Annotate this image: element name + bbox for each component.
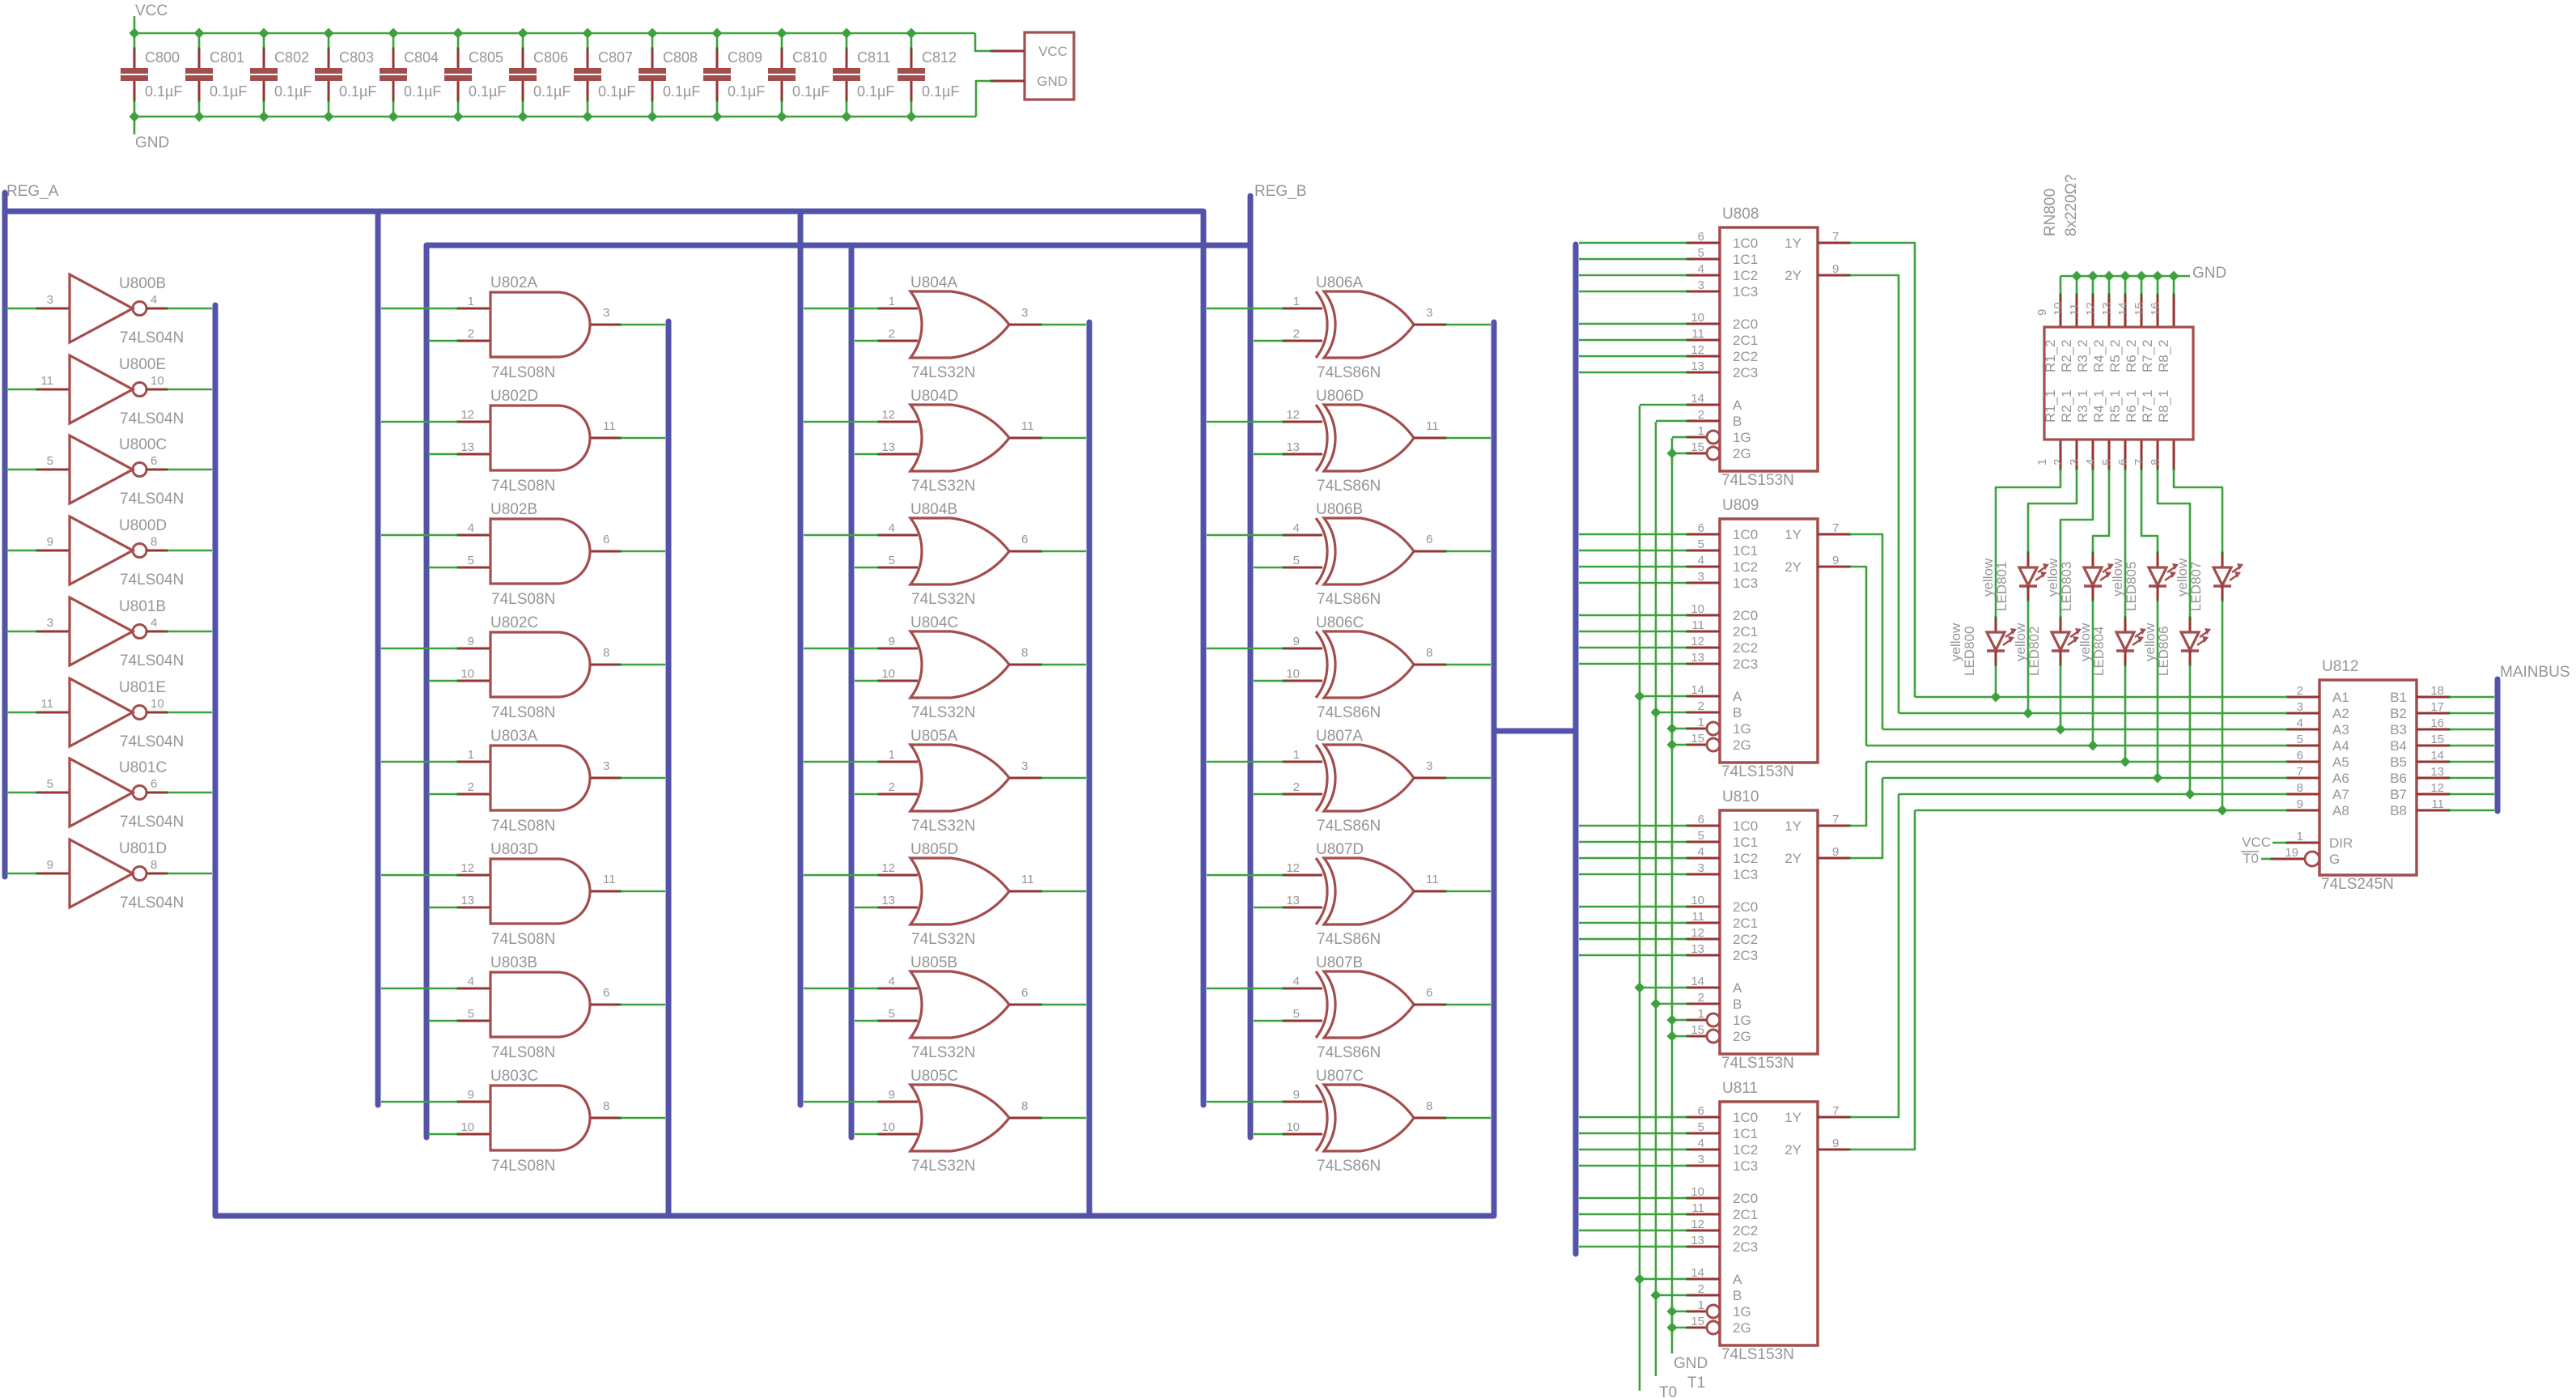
svg-text:R4_2: R4_2	[2091, 339, 2107, 372]
svg-text:11: 11	[1691, 327, 1704, 341]
svg-text:6: 6	[151, 777, 157, 791]
svg-text:U803D: U803D	[490, 841, 538, 858]
svg-text:2C2: 2C2	[1733, 640, 1758, 656]
svg-text:2: 2	[1698, 991, 1704, 1005]
svg-text:1: 1	[2035, 459, 2049, 465]
svg-text:U804D: U804D	[910, 388, 958, 405]
svg-text:15: 15	[1691, 1023, 1704, 1037]
svg-text:14: 14	[1691, 683, 1704, 697]
svg-text:U808: U808	[1722, 206, 1759, 223]
svg-text:U800E: U800E	[119, 356, 166, 373]
svg-text:8: 8	[151, 535, 157, 549]
svg-text:3: 3	[1698, 861, 1704, 875]
svg-text:R5_1: R5_1	[2107, 389, 2123, 423]
svg-text:6: 6	[1698, 521, 1704, 535]
svg-text:A1: A1	[2332, 690, 2349, 705]
svg-text:B: B	[1733, 1288, 1742, 1303]
svg-text:B2: B2	[2390, 706, 2407, 721]
svg-text:5: 5	[1698, 538, 1704, 551]
svg-text:U800B: U800B	[119, 275, 166, 292]
svg-text:VCC: VCC	[1038, 44, 1067, 59]
svg-text:10: 10	[1691, 602, 1704, 616]
svg-text:0.1µF: 0.1µF	[469, 83, 506, 100]
svg-text:0.1µF: 0.1µF	[857, 83, 894, 100]
svg-text:11: 11	[2431, 797, 2444, 811]
svg-text:REG_A: REG_A	[6, 183, 59, 200]
svg-text:2Y: 2Y	[1785, 851, 1802, 866]
svg-text:11: 11	[2068, 303, 2082, 316]
svg-text:2Y: 2Y	[1785, 559, 1802, 575]
svg-text:74LS86N: 74LS86N	[1317, 1044, 1381, 1061]
svg-text:B: B	[1733, 414, 1742, 429]
svg-text:74LS153N: 74LS153N	[1721, 1346, 1794, 1363]
svg-text:U800D: U800D	[119, 517, 167, 534]
svg-text:R5_2: R5_2	[2107, 339, 2123, 372]
svg-text:1: 1	[1293, 295, 1300, 308]
svg-text:10: 10	[151, 374, 164, 388]
svg-text:R7_1: R7_1	[2140, 389, 2155, 423]
svg-text:A2: A2	[2332, 706, 2349, 721]
svg-text:R4_1: R4_1	[2091, 389, 2107, 423]
svg-text:3: 3	[1021, 306, 1028, 320]
svg-text:2C0: 2C0	[1733, 1191, 1758, 1206]
svg-text:2C0: 2C0	[1733, 317, 1758, 332]
svg-text:1: 1	[889, 295, 895, 308]
svg-text:U806B: U806B	[1316, 501, 1363, 518]
svg-text:R2_2: R2_2	[2059, 339, 2074, 372]
svg-text:1C0: 1C0	[1733, 1110, 1758, 1125]
svg-text:0.1µF: 0.1µF	[339, 83, 376, 100]
svg-text:1C2: 1C2	[1733, 1142, 1758, 1158]
svg-text:1C3: 1C3	[1733, 284, 1758, 300]
svg-text:T0: T0	[2243, 851, 2259, 866]
svg-text:74LS153N: 74LS153N	[1721, 472, 1794, 489]
svg-text:U810: U810	[1722, 788, 1759, 805]
svg-text:U800C: U800C	[119, 436, 167, 453]
svg-text:1Y: 1Y	[1785, 818, 1802, 834]
svg-text:8: 8	[2149, 459, 2162, 465]
svg-text:3: 3	[47, 616, 53, 630]
svg-text:13: 13	[460, 894, 474, 907]
svg-text:4: 4	[1698, 554, 1704, 567]
svg-text:11: 11	[603, 873, 616, 886]
svg-text:U807D: U807D	[1316, 841, 1364, 858]
svg-text:6: 6	[1021, 986, 1028, 1000]
svg-text:8: 8	[603, 1099, 609, 1113]
svg-text:B: B	[1733, 705, 1742, 720]
svg-text:U806A: U806A	[1316, 274, 1363, 291]
svg-text:U804B: U804B	[910, 501, 957, 518]
svg-text:2: 2	[1293, 780, 1300, 794]
svg-text:RN800: RN800	[2042, 189, 2059, 236]
svg-text:5: 5	[889, 1007, 895, 1021]
svg-text:4: 4	[1698, 845, 1704, 859]
svg-text:2C0: 2C0	[1733, 608, 1758, 623]
svg-text:13: 13	[2430, 765, 2444, 779]
svg-text:5: 5	[1293, 554, 1300, 567]
svg-text:1: 1	[1698, 1007, 1704, 1021]
svg-text:74LS04N: 74LS04N	[120, 572, 184, 589]
svg-text:1Y: 1Y	[1785, 527, 1802, 542]
svg-text:1: 1	[1293, 748, 1300, 762]
svg-text:R7_2: R7_2	[2140, 339, 2155, 372]
svg-text:5: 5	[1293, 1007, 1300, 1021]
svg-text:0.1µF: 0.1µF	[792, 83, 830, 100]
svg-text:G: G	[2329, 852, 2340, 867]
svg-text:0.1µF: 0.1µF	[728, 83, 765, 100]
svg-text:4: 4	[889, 521, 895, 535]
svg-text:13: 13	[881, 440, 895, 454]
svg-text:A: A	[1733, 1272, 1742, 1287]
svg-text:13: 13	[2100, 302, 2114, 316]
svg-text:1C1: 1C1	[1733, 1126, 1758, 1141]
svg-text:74LS32N: 74LS32N	[911, 591, 975, 608]
svg-text:5: 5	[2297, 733, 2303, 746]
svg-text:R6_2: R6_2	[2124, 339, 2139, 372]
svg-text:9: 9	[889, 1088, 895, 1102]
svg-text:R8_1: R8_1	[2156, 389, 2171, 423]
svg-text:2: 2	[1293, 327, 1300, 341]
svg-text:1Y: 1Y	[1785, 236, 1802, 251]
svg-text:10: 10	[1691, 894, 1704, 907]
svg-text:4: 4	[1698, 1137, 1704, 1150]
svg-text:MAINBUS: MAINBUS	[2500, 664, 2570, 681]
svg-text:74LS86N: 74LS86N	[1317, 478, 1381, 495]
svg-text:A: A	[1733, 397, 1742, 413]
svg-text:74LS245N: 74LS245N	[2321, 876, 2394, 893]
svg-text:1C0: 1C0	[1733, 527, 1758, 542]
svg-text:U801B: U801B	[119, 598, 166, 615]
svg-text:5: 5	[468, 554, 474, 567]
svg-text:14: 14	[1691, 975, 1704, 988]
svg-text:1: 1	[1698, 424, 1704, 438]
svg-text:C809: C809	[728, 49, 762, 66]
svg-text:74LS04N: 74LS04N	[120, 894, 184, 911]
svg-text:REG_B: REG_B	[1254, 183, 1306, 200]
svg-text:74LS08N: 74LS08N	[491, 1044, 555, 1061]
svg-text:A8: A8	[2332, 803, 2349, 818]
svg-text:5: 5	[1698, 1120, 1704, 1134]
svg-text:3: 3	[603, 306, 609, 320]
svg-text:6: 6	[1698, 1104, 1704, 1118]
svg-text:74LS86N: 74LS86N	[1317, 818, 1381, 835]
svg-text:5: 5	[47, 454, 53, 468]
svg-text:R3_2: R3_2	[2075, 339, 2090, 372]
svg-text:9: 9	[1832, 554, 1839, 567]
svg-text:2G: 2G	[1733, 446, 1751, 461]
svg-text:74LS08N: 74LS08N	[491, 1158, 555, 1175]
svg-text:15: 15	[2133, 302, 2146, 316]
svg-text:8: 8	[2297, 781, 2303, 795]
svg-text:4: 4	[2084, 459, 2098, 465]
svg-text:U804C: U804C	[910, 614, 958, 631]
svg-text:12: 12	[460, 861, 474, 875]
svg-text:2: 2	[889, 327, 895, 341]
svg-text:0.1µF: 0.1µF	[210, 83, 247, 100]
svg-text:B8: B8	[2390, 803, 2407, 818]
svg-text:13: 13	[1691, 359, 1704, 373]
svg-text:0.1µF: 0.1µF	[922, 83, 959, 100]
svg-text:2: 2	[2297, 684, 2303, 698]
svg-text:7: 7	[1832, 230, 1839, 244]
svg-text:LED800: LED800	[1962, 627, 1977, 676]
svg-text:1G: 1G	[1733, 430, 1751, 445]
svg-text:U812: U812	[2322, 658, 2358, 675]
svg-text:6: 6	[1698, 813, 1704, 826]
svg-text:12: 12	[1691, 926, 1704, 940]
svg-text:74LS32N: 74LS32N	[911, 931, 975, 948]
svg-text:B3: B3	[2390, 722, 2407, 737]
svg-text:74LS86N: 74LS86N	[1317, 364, 1381, 381]
svg-text:6: 6	[151, 454, 157, 468]
svg-text:2C1: 2C1	[1733, 1207, 1758, 1222]
svg-text:U809: U809	[1722, 497, 1759, 514]
svg-text:0.1µF: 0.1µF	[533, 83, 571, 100]
svg-text:1C0: 1C0	[1733, 236, 1758, 251]
svg-text:C801: C801	[210, 49, 244, 66]
svg-text:R2_1: R2_1	[2059, 389, 2074, 423]
svg-text:R3_1: R3_1	[2075, 389, 2090, 423]
svg-text:U802D: U802D	[490, 388, 538, 405]
svg-text:A4: A4	[2332, 738, 2349, 754]
svg-text:1G: 1G	[1733, 721, 1751, 737]
svg-text:2: 2	[468, 327, 474, 341]
svg-text:5: 5	[1698, 246, 1704, 260]
svg-text:10: 10	[1286, 1120, 1300, 1134]
svg-text:LED807: LED807	[2188, 562, 2204, 611]
svg-text:19: 19	[2285, 846, 2298, 860]
svg-text:C811: C811	[857, 49, 891, 66]
svg-text:8: 8	[1021, 646, 1028, 660]
svg-text:74LS32N: 74LS32N	[911, 704, 975, 721]
svg-text:1Y: 1Y	[1785, 1110, 1802, 1125]
svg-text:0.1µF: 0.1µF	[274, 83, 312, 100]
svg-text:17: 17	[2430, 700, 2444, 714]
svg-text:LED805: LED805	[2124, 562, 2139, 611]
svg-text:U805D: U805D	[910, 841, 958, 858]
svg-text:74LS86N: 74LS86N	[1317, 931, 1381, 948]
svg-text:2C3: 2C3	[1733, 1239, 1758, 1255]
svg-text:74LS153N: 74LS153N	[1721, 1055, 1794, 1072]
svg-text:11: 11	[603, 419, 616, 433]
svg-text:6: 6	[1426, 986, 1432, 1000]
svg-text:9: 9	[468, 635, 474, 648]
svg-text:6: 6	[603, 533, 609, 546]
svg-text:14: 14	[2430, 749, 2444, 763]
svg-text:5: 5	[47, 777, 53, 791]
svg-text:2G: 2G	[1733, 737, 1751, 753]
svg-text:2C0: 2C0	[1733, 899, 1758, 915]
svg-text:R6_1: R6_1	[2124, 389, 2139, 423]
svg-text:9: 9	[889, 635, 895, 648]
svg-text:U811: U811	[1722, 1080, 1758, 1097]
svg-text:U803C: U803C	[490, 1068, 538, 1085]
svg-text:B4: B4	[2390, 738, 2407, 754]
svg-text:4: 4	[1698, 262, 1704, 276]
svg-text:12: 12	[881, 408, 895, 422]
svg-text:U805B: U805B	[910, 954, 957, 971]
svg-text:5: 5	[468, 1007, 474, 1021]
svg-text:10: 10	[151, 697, 164, 711]
svg-text:2: 2	[889, 780, 895, 794]
svg-text:10: 10	[1691, 311, 1704, 325]
svg-text:2C2: 2C2	[1733, 932, 1758, 947]
svg-text:1C2: 1C2	[1733, 268, 1758, 283]
svg-text:B7: B7	[2390, 787, 2407, 802]
svg-text:2Y: 2Y	[1785, 1142, 1802, 1158]
svg-text:4: 4	[1293, 975, 1300, 988]
svg-text:U802B: U802B	[490, 501, 537, 518]
svg-text:5: 5	[889, 554, 895, 567]
svg-text:2C3: 2C3	[1733, 365, 1758, 380]
svg-text:3: 3	[603, 759, 609, 773]
svg-text:B1: B1	[2390, 690, 2407, 705]
svg-text:11: 11	[1021, 873, 1034, 886]
svg-text:15: 15	[1691, 440, 1704, 454]
svg-text:2Y: 2Y	[1785, 268, 1802, 283]
svg-text:C804: C804	[404, 49, 439, 66]
svg-text:T0: T0	[1659, 1384, 1677, 1398]
svg-text:6: 6	[2297, 749, 2303, 763]
svg-text:10: 10	[881, 667, 895, 681]
svg-text:74LS32N: 74LS32N	[911, 1044, 975, 1061]
svg-text:7: 7	[1832, 521, 1839, 535]
svg-text:3: 3	[1426, 306, 1432, 320]
svg-text:4: 4	[151, 616, 157, 630]
svg-text:6: 6	[1698, 230, 1704, 244]
svg-text:5: 5	[1698, 829, 1704, 843]
svg-text:A: A	[1733, 689, 1742, 704]
svg-text:0.1µF: 0.1µF	[145, 83, 182, 100]
svg-text:2: 2	[1698, 699, 1704, 713]
svg-text:74LS08N: 74LS08N	[491, 704, 555, 721]
svg-text:74LS08N: 74LS08N	[491, 591, 555, 608]
svg-text:1C3: 1C3	[1733, 576, 1758, 591]
svg-text:8: 8	[151, 858, 157, 872]
svg-text:12: 12	[1691, 1217, 1704, 1231]
svg-text:10: 10	[881, 1120, 895, 1134]
svg-text:1C3: 1C3	[1733, 1158, 1758, 1174]
svg-text:14: 14	[2116, 302, 2130, 316]
svg-text:A6: A6	[2332, 771, 2349, 786]
svg-text:15: 15	[2430, 733, 2444, 746]
svg-text:1: 1	[2297, 830, 2303, 843]
svg-text:9: 9	[2035, 309, 2049, 316]
svg-text:1G: 1G	[1733, 1304, 1751, 1319]
svg-text:9: 9	[1832, 1137, 1839, 1150]
svg-text:4: 4	[468, 975, 474, 988]
svg-text:12: 12	[460, 408, 474, 422]
svg-text:14: 14	[1691, 392, 1704, 406]
svg-text:4: 4	[889, 975, 895, 988]
svg-text:2C3: 2C3	[1733, 657, 1758, 672]
svg-text:4: 4	[468, 521, 474, 535]
svg-text:B5: B5	[2390, 754, 2407, 770]
svg-text:74LS32N: 74LS32N	[911, 818, 975, 835]
svg-text:8: 8	[1021, 1099, 1028, 1113]
svg-text:10: 10	[1286, 667, 1300, 681]
svg-text:6: 6	[1426, 533, 1432, 546]
svg-text:2C1: 2C1	[1733, 916, 1758, 931]
svg-text:9: 9	[1832, 262, 1839, 276]
svg-text:15: 15	[1691, 1315, 1704, 1328]
svg-text:10: 10	[1691, 1185, 1704, 1199]
svg-text:C800: C800	[145, 49, 180, 66]
svg-text:C805: C805	[469, 49, 503, 66]
svg-text:U802A: U802A	[490, 274, 537, 291]
svg-text:1: 1	[468, 748, 474, 762]
svg-text:C812: C812	[922, 49, 957, 66]
svg-text:U801C: U801C	[119, 759, 167, 776]
svg-text:8: 8	[1426, 646, 1432, 660]
svg-text:1: 1	[468, 295, 474, 308]
svg-text:U804A: U804A	[910, 274, 957, 291]
svg-text:1: 1	[889, 748, 895, 762]
svg-text:10: 10	[460, 667, 474, 681]
svg-text:U806C: U806C	[1316, 614, 1364, 631]
svg-text:4: 4	[2297, 716, 2303, 730]
svg-text:3: 3	[1426, 759, 1432, 773]
svg-text:B6: B6	[2390, 771, 2407, 786]
svg-text:A3: A3	[2332, 722, 2349, 737]
svg-text:1C2: 1C2	[1733, 851, 1758, 866]
svg-text:13: 13	[1286, 440, 1300, 454]
svg-text:12: 12	[1691, 635, 1704, 648]
svg-text:9: 9	[1832, 845, 1839, 859]
svg-text:13: 13	[1286, 894, 1300, 907]
svg-text:74LS08N: 74LS08N	[491, 478, 555, 495]
svg-text:U803B: U803B	[490, 954, 537, 971]
svg-text:7: 7	[1832, 1104, 1839, 1118]
svg-text:74LS08N: 74LS08N	[491, 931, 555, 948]
svg-text:12: 12	[1691, 343, 1704, 357]
svg-text:A: A	[1733, 980, 1742, 996]
svg-text:C810: C810	[792, 49, 827, 66]
svg-text:74LS04N: 74LS04N	[120, 652, 184, 669]
svg-text:74LS32N: 74LS32N	[911, 1158, 975, 1175]
svg-text:18: 18	[2430, 684, 2444, 698]
svg-text:3: 3	[1698, 278, 1704, 292]
svg-text:U802C: U802C	[490, 614, 538, 631]
svg-text:3: 3	[2068, 459, 2082, 465]
svg-text:2C2: 2C2	[1733, 349, 1758, 364]
svg-text:3: 3	[2297, 700, 2303, 714]
svg-text:2C1: 2C1	[1733, 624, 1758, 640]
svg-text:74LS32N: 74LS32N	[911, 364, 975, 381]
svg-text:5: 5	[2100, 459, 2114, 465]
svg-text:U805A: U805A	[910, 728, 957, 745]
svg-text:1C1: 1C1	[1733, 543, 1758, 559]
svg-text:11: 11	[40, 374, 53, 388]
svg-text:74LS04N: 74LS04N	[120, 410, 184, 427]
svg-text:9: 9	[1293, 1088, 1300, 1102]
svg-text:14: 14	[1691, 1266, 1704, 1280]
svg-text:U803A: U803A	[490, 728, 537, 745]
svg-text:9: 9	[47, 535, 53, 549]
svg-text:11: 11	[1691, 1201, 1704, 1215]
svg-text:8x220Ω?: 8x220Ω?	[2063, 174, 2080, 236]
svg-text:U805C: U805C	[910, 1068, 958, 1085]
svg-text:74LS08N: 74LS08N	[491, 818, 555, 835]
svg-text:13: 13	[881, 894, 895, 907]
svg-text:2C3: 2C3	[1733, 948, 1758, 963]
svg-text:11: 11	[1691, 910, 1704, 924]
svg-text:12: 12	[1286, 408, 1300, 422]
svg-text:74LS32N: 74LS32N	[911, 478, 975, 495]
svg-text:74LS86N: 74LS86N	[1317, 591, 1381, 608]
svg-text:12: 12	[881, 861, 895, 875]
svg-text:10: 10	[460, 1120, 474, 1134]
